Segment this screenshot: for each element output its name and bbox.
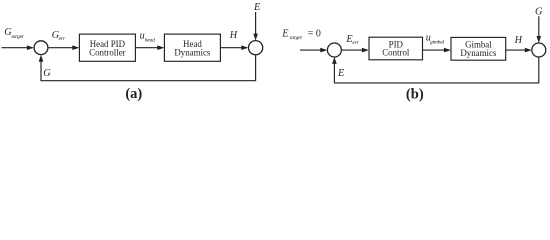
summing junction S1 (a) <box>34 41 48 55</box>
summing junction S4 (b) <box>532 43 546 57</box>
svg-text:head: head <box>145 38 155 44</box>
svg-text:E: E <box>281 28 289 39</box>
wire: feedback loop from S4 bottom to S3 bottom (b) <box>332 57 539 83</box>
svg-text:= 0: = 0 <box>308 28 321 39</box>
wire: H from U2 to S2 (a) <box>220 45 248 50</box>
wire: E_target input arrow (b) <box>300 48 327 53</box>
label: G_err (a) <box>52 30 66 42</box>
block text: Gimbal Dynamics <box>460 40 497 58</box>
wire: H from U4 to S4 (b) <box>506 48 532 53</box>
block text: PID Control <box>382 39 410 57</box>
label: E_err (b) <box>345 34 359 46</box>
svg-text:(a): (a) <box>125 86 142 102</box>
wire: E_err from S3 to PID Control (b) <box>341 48 369 53</box>
svg-text:err: err <box>59 36 66 42</box>
block text: Head PID Controller <box>89 39 126 58</box>
svg-text:E: E <box>337 68 345 79</box>
svg-text:target: target <box>290 35 302 41</box>
block text: Head Dynamics <box>174 39 211 58</box>
svg-text:err: err <box>352 40 359 46</box>
label: E_target = 0 (b) <box>281 28 321 41</box>
label: G_target (a) <box>4 27 24 40</box>
block U3: PID Control <box>369 37 423 60</box>
wire: G input from top into S4 (b) <box>537 16 542 43</box>
label: u_gimbal (b) <box>426 32 445 45</box>
svg-text:Control: Control <box>382 48 410 58</box>
svg-text:gimbal: gimbal <box>430 39 445 45</box>
svg-text:(b): (b) <box>406 86 424 102</box>
wire: G_err from S1 to PID block (a) <box>48 45 80 50</box>
label: u_head (a) <box>140 31 156 44</box>
svg-text:H: H <box>229 30 238 41</box>
summing junction S2 (a) <box>249 41 263 55</box>
block U1: Head PID Controller <box>79 34 135 61</box>
wire: E input from top into S2 (a) <box>253 12 258 41</box>
svg-text:E: E <box>253 2 261 13</box>
summing junction S3 (b) <box>327 43 341 57</box>
svg-text:G: G <box>535 6 543 17</box>
wire: feedback loop from S2 bottom to S1 bottom (a) <box>39 55 256 81</box>
wire: u_gimbal from U3 to U4 (b) <box>423 48 451 53</box>
svg-text:target: target <box>11 34 23 40</box>
wire: u_head from U1 to U2 (a) <box>135 45 164 50</box>
svg-text:H: H <box>514 35 523 46</box>
block U2: Head Dynamics <box>164 34 220 61</box>
wire: G_target input arrow (a) <box>2 45 34 50</box>
svg-text:Dynamics: Dynamics <box>460 48 497 58</box>
svg-text:Dynamics: Dynamics <box>174 48 211 58</box>
svg-text:Controller: Controller <box>89 48 126 58</box>
block U4: Gimbal Dynamics <box>451 37 506 60</box>
svg-text:G: G <box>43 68 51 79</box>
